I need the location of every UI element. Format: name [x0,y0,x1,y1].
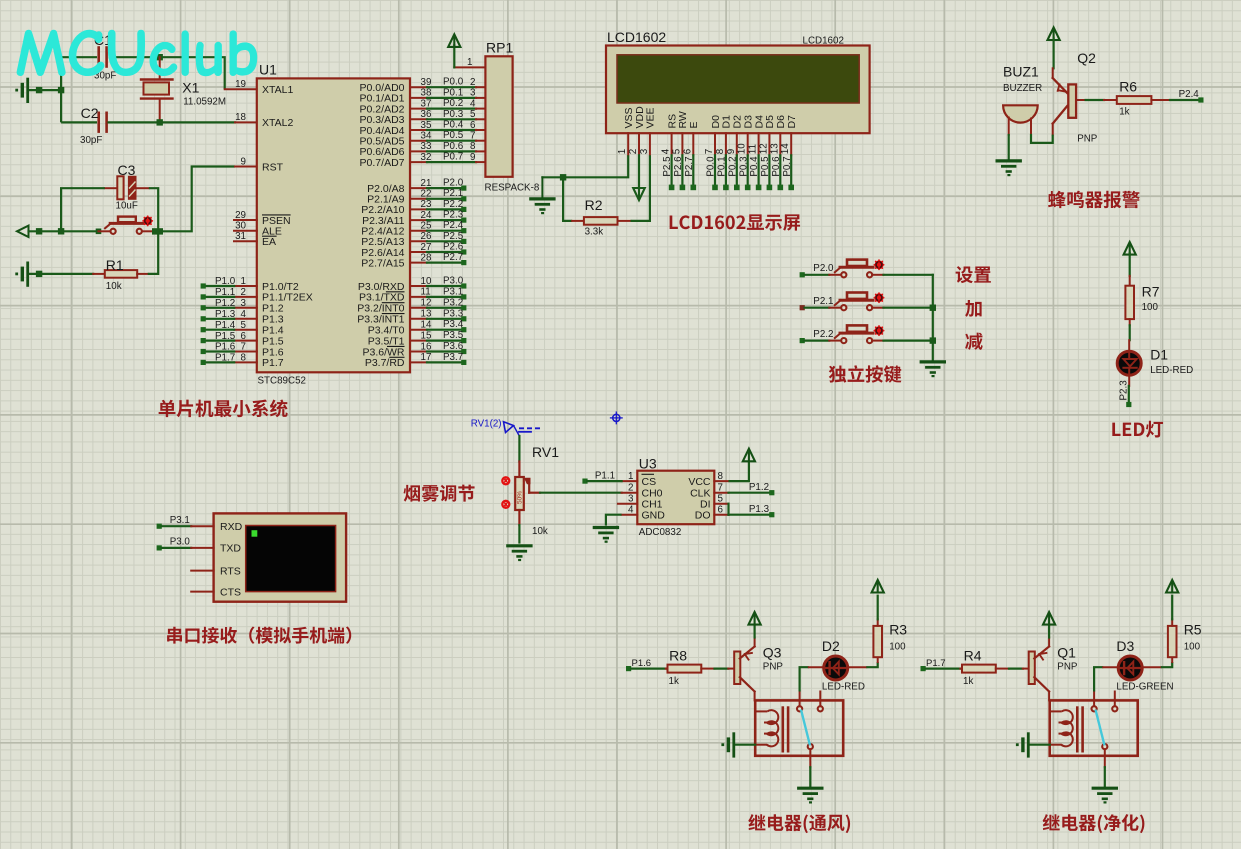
svg-text:10uF: 10uF [116,201,138,212]
label U1 [259,62,277,78]
svg-text:P1.4: P1.4 [215,320,236,331]
pin label XTAL2 [262,117,293,129]
label relay-fan [748,814,850,833]
label serial-receive [167,627,351,644]
pin label P1.5 [262,335,284,347]
wire net CH0 [540,492,622,494]
label Q2 [1077,50,1096,66]
wire net P1.6 [631,667,666,669]
svg-text:D1: D1 [1150,347,1168,363]
terminal P3.1 [157,524,162,529]
label U3 [639,456,657,472]
pin label P0.3/AD3 [360,114,405,126]
wire [1161,662,1172,667]
net label P2.3 [443,210,464,221]
lcd pin number 12 [758,143,769,154]
relay core [1077,708,1082,752]
power terminal [872,580,884,593]
wire [427,107,476,109]
wire [61,188,105,231]
overline INT0 [382,302,405,304]
pin number 2 [241,287,246,298]
svg-text:U3: U3 [639,456,657,472]
lcd pin label VDD [634,106,646,129]
pin 24 stub [410,219,427,221]
svg-text:14: 14 [780,143,791,154]
wire net RST left [29,230,99,232]
net label P1.6 [215,342,236,353]
svg-text:P0.4: P0.4 [443,120,464,131]
value 3.3k [585,227,604,238]
svg-text:6: 6 [682,148,693,154]
wire net P3.4 [427,329,462,331]
svg-text:P0.0: P0.0 [443,77,464,88]
overline EA [262,235,277,237]
svg-text:RV1(2): RV1(2) [471,419,502,430]
wire [1009,667,1023,669]
terminal P1.5 [201,338,206,343]
pin number 30 [235,221,246,232]
svg-text:P2.5: P2.5 [443,231,464,242]
value 100 purify [1184,642,1201,653]
wire net XTAL1 top [61,57,97,122]
label X1 [182,80,199,96]
wire [800,667,809,691]
label Q3 [763,645,782,661]
value 100 fan [889,642,906,653]
pin number 11 [421,287,431,298]
junction [36,271,42,277]
svg-text:LED-RED: LED-RED [822,682,865,693]
terminal P0.5 [767,185,773,191]
pin 23 stub [410,208,427,210]
terminal P0.7 [788,185,794,191]
svg-text:TXD: TXD [220,543,241,555]
net label RV1(2) [471,419,502,430]
svg-text:9: 9 [241,156,246,167]
power terminal [1166,580,1178,593]
terminal P2.0 [461,186,466,191]
net label P1.3 [215,309,236,320]
pin label P0.2/AD2 [360,103,405,115]
junction [560,174,566,180]
terminal P2.4 [1198,97,1203,102]
terminal P1.6 [626,666,631,671]
svg-text:BUZZER: BUZZER [1003,83,1042,94]
terminal P1.0 [201,283,206,288]
power terminal [749,612,761,625]
power terminal [743,449,755,462]
adc pin number 2 [628,483,633,494]
pin 19 stub XTAL1 [225,87,263,92]
svg-text:9: 9 [470,152,475,163]
label PNP fan [763,662,784,673]
pin label P1.6 [262,346,284,358]
lcd pin number 13 [769,143,780,154]
svg-text:DO: DO [695,510,711,522]
pin 26 stub [410,240,427,242]
value LED-GREEN [1116,682,1173,693]
lcd pin stub RS [671,133,673,155]
wire net GND [606,515,622,526]
adc pin 5 stub [714,503,728,505]
pin label P0.4/AD4 [360,125,405,137]
lcd pin label D5 [764,115,776,129]
terminal P2.7 [691,185,697,191]
wire [736,744,755,746]
terminal P1.6 [201,349,206,354]
pin number 35 [421,120,432,131]
svg-text:P1.7: P1.7 [262,357,284,369]
svg-text:19: 19 [235,79,246,90]
wire [563,177,572,221]
terminal P1.1 [201,294,206,299]
adc pin label CS [642,476,657,488]
lcd pin stub D1 [725,133,727,155]
pin label P3.3/INT1 [357,314,404,326]
wire ground rail [932,275,934,362]
net label P0.0 [706,156,717,177]
svg-text:7: 7 [704,149,715,154]
battery B2 [15,263,27,286]
svg-text:100: 100 [1142,302,1159,313]
overline WR [387,345,405,347]
net label P0.3 [443,109,464,120]
adc pin number 4 [628,505,634,516]
wire net P1.7 [206,361,235,363]
label led-lamp [1112,421,1163,438]
svg-text:R7: R7 [1142,284,1160,300]
resistor R3 [873,619,882,662]
label R2 [585,197,603,213]
ground [531,177,554,213]
svg-text:R6: R6 [1119,79,1137,95]
pin label P3.0/RXD [358,281,405,293]
net label P1.0 [215,276,236,287]
relay switch blade [1096,711,1104,744]
buzzer BUZ1 [1003,105,1038,135]
label R1 [106,257,124,273]
label RV1 [532,444,559,460]
pin label P1.1/T2EX [262,292,313,304]
terminal P3.0 [157,545,162,550]
pin number 13 [421,309,432,320]
pin 7 stub [234,351,257,353]
svg-text:P1.7: P1.7 [926,658,946,669]
pin 34 stub [410,140,427,142]
battery cell [1016,734,1028,757]
resistor pack pin 6 stub [476,129,485,131]
adc pin label DO [695,510,711,522]
dashed marker [519,428,542,432]
svg-text:13: 13 [769,143,780,154]
adc pin 3 stub [618,503,637,505]
terminal P0.3 [745,185,751,191]
transistor Q3 [728,638,754,701]
wire [1171,596,1173,620]
wire net P2.4 [1170,99,1198,101]
svg-text:Q1: Q1 [1057,645,1076,661]
wire net P0.1 [725,155,727,185]
transistor Q1 [1023,638,1049,701]
resistor pack pin 3 stub [476,97,485,99]
label R5 [1184,622,1202,638]
resistor pack pin 2 stub [476,86,485,88]
svg-text:4: 4 [661,148,672,154]
net label P3.2 [443,297,463,308]
lcd pin stub VEE [649,133,651,155]
svg-text:P1.5: P1.5 [215,331,236,342]
svg-text:XTAL2: XTAL2 [262,117,293,129]
lcd pin label D3 [743,115,755,129]
svg-text:R4: R4 [964,648,982,664]
capacitor C3 [105,176,149,199]
terminal P3.4 [461,327,466,332]
actuator [874,293,883,302]
wire net VEE [631,155,650,221]
wire [542,176,563,178]
svg-text:D7: D7 [786,115,798,129]
value 30pF [80,135,102,146]
label D2 [822,638,840,654]
terminal P2.5 [461,239,466,244]
pin 3 stub [234,307,257,309]
pin label P2.0/A8 [367,183,405,195]
svg-text:R1: R1 [106,257,124,273]
wire [1104,767,1106,788]
svg-text:P3.7: P3.7 [443,352,463,363]
pin 35 stub [410,129,427,131]
pin number 5 [241,320,247,331]
terminal P3.3 [461,316,466,321]
transistor Q2 [1053,68,1076,134]
pin number 17 [421,352,432,363]
wire [1030,135,1032,143]
net label P2.1 [443,188,463,199]
pin number 4 [241,309,247,320]
junction [152,228,163,234]
lcd pin number 10 [737,143,748,154]
svg-text:P0.3: P0.3 [443,109,464,120]
svg-text:1: 1 [467,57,472,68]
svg-text:P2.4: P2.4 [443,220,464,231]
lcd pin number 3 [639,148,650,154]
net label P1.7 [215,353,235,364]
capacitor C1 [99,48,107,67]
svg-text:R2: R2 [585,197,603,213]
wire DI-DO join [727,504,729,515]
wire net P1.5 [206,340,235,342]
svg-text:P2.0: P2.0 [443,178,464,189]
svg-text:P1.6: P1.6 [215,342,236,353]
svg-text:P0.7: P0.7 [782,156,793,176]
wire net P0.3 [747,155,749,185]
svg-text:P0.2: P0.2 [727,156,738,176]
wire [427,97,476,99]
resistor R7 [1125,276,1134,325]
pin number 9 [241,156,246,167]
pin number 6 [241,331,247,342]
svg-text:P2.3: P2.3 [1119,380,1130,401]
marker crosshair [611,412,623,424]
net label P2.3 [1119,380,1130,401]
wire [1094,667,1103,691]
pin 37 stub [410,108,427,110]
svg-text:CS: CS [642,476,657,488]
pin number 16 [421,341,432,352]
pin number 31 [235,231,246,242]
wire [877,596,879,620]
respack RP1 body [485,56,512,177]
lcd body [606,46,870,134]
label R6 [1119,79,1137,95]
value LED-RED [822,682,865,693]
svg-text:P0.1: P0.1 [443,87,463,98]
pin number 39 [421,77,432,88]
svg-text:P2.7: P2.7 [684,156,695,176]
terminal P1.4 [201,327,206,332]
svg-text:R3: R3 [889,622,907,638]
svg-text:P3.2: P3.2 [443,297,463,308]
wire [149,188,158,231]
svg-text:P2.1: P2.1 [813,296,833,307]
power terminal [1124,242,1136,255]
lcd pin stub RW [681,133,683,155]
adc pin number 8 [718,471,724,482]
wire net P0.5 [768,155,770,185]
svg-text:RTS: RTS [220,565,241,577]
svg-text:100: 100 [889,642,906,653]
pin number 4 [470,98,476,109]
adc pin number 7 [718,483,723,494]
crystal X1 [141,57,173,122]
net label P1.2 [215,298,235,309]
svg-text:1k: 1k [963,676,973,687]
pin number 27 [421,242,432,253]
svg-text:P0.4: P0.4 [749,156,760,177]
wire net P3.1 [162,525,192,527]
svg-text:P3.1: P3.1 [443,286,463,297]
svg-text:4: 4 [470,98,476,109]
pin label P3.2/INT0 [357,303,404,315]
svg-text:P2.7/A15: P2.7/A15 [361,257,404,269]
pin 18 stub XTAL2 [235,121,257,123]
lcd pin stub D7 [790,133,792,155]
svg-text:P1.1: P1.1 [215,287,235,298]
terminal P1.3 [769,512,774,517]
pin 22 stub [410,198,427,200]
svg-text:1k: 1k [669,676,679,687]
wire [453,45,455,67]
svg-text:P0.7: P0.7 [443,152,463,163]
net label P2.5 [443,231,464,242]
lcd pin label D7 [786,115,798,129]
resistor R5 [1168,619,1177,662]
lcd pin label RS [666,114,678,129]
svg-text:P0.2: P0.2 [443,98,463,109]
label minus [965,333,983,350]
adc pin label CH1 [642,499,663,511]
pin 16 stub [410,351,427,353]
net label P1.7 [926,658,946,669]
resistor R4 [960,665,1009,673]
pin label XTAL1 [262,84,293,96]
svg-text:R8: R8 [669,648,687,664]
actuator [874,326,883,335]
wire net P3.3 [427,318,462,320]
lcd pin number 2 [628,149,639,154]
lcd pin number 8 [715,148,726,154]
net label P1.1 [595,471,615,482]
terminal P2.4 [461,228,466,233]
svg-text:11: 11 [748,144,759,154]
wire net P0.7 [790,155,792,185]
resistor R2 [572,217,630,225]
pin 10 stub [410,285,427,287]
relay pole [808,744,813,767]
wire net P1.7 [926,667,961,669]
wire [1076,99,1104,101]
svg-text:PNP: PNP [1057,662,1078,673]
lcd pin number 1 [617,149,628,154]
svg-text:8: 8 [715,148,726,154]
button KEY1 [829,260,883,278]
resistor pack pin 4 stub [476,108,485,110]
svg-text:11.0592M: 11.0592M [183,97,226,108]
wire net P2.3 [1128,386,1130,402]
svg-text:3: 3 [639,148,650,154]
junction [930,305,936,344]
lcd pin label VEE [645,107,657,128]
net label P2.4 [1179,89,1200,100]
svg-text:ADC0832: ADC0832 [639,527,681,538]
net label P1.2 [749,482,769,493]
pin 14 stub [410,329,427,331]
value 30pF [94,71,116,82]
wire [1031,744,1050,746]
battery cell [721,734,733,757]
resistor R6 [1104,96,1170,104]
svg-text:8: 8 [470,141,476,152]
net label P0.5 [760,156,771,177]
pin number 19 [235,79,246,90]
pin number 29 [235,210,246,221]
terminal P1.7 [201,360,206,365]
pin 31 stub [234,240,257,242]
pin 12 stub [410,307,427,309]
svg-text:2: 2 [470,77,475,88]
resistor pack pin 8 stub [476,150,485,152]
wire net P2.1 [805,307,830,309]
lcd pin number 9 [726,149,737,154]
actuator [143,216,152,225]
resistor pack pin 5 stub [476,118,485,120]
terminal P2.7 [461,260,466,265]
pin label P2.2/A10 [361,204,404,216]
vt pin label RTS [220,565,241,577]
relay contact NO [797,692,802,712]
vt pin TXD stub [191,547,213,549]
pin 38 stub [410,97,427,99]
svg-text:1: 1 [617,149,628,154]
label smoke-adjust [404,485,475,502]
svg-text:3: 3 [470,88,476,99]
pin number 3 [241,298,247,309]
value LED-RED [1150,365,1193,376]
terminal P0.2 [734,185,740,191]
label C1 [94,32,112,48]
ground [997,161,1020,175]
